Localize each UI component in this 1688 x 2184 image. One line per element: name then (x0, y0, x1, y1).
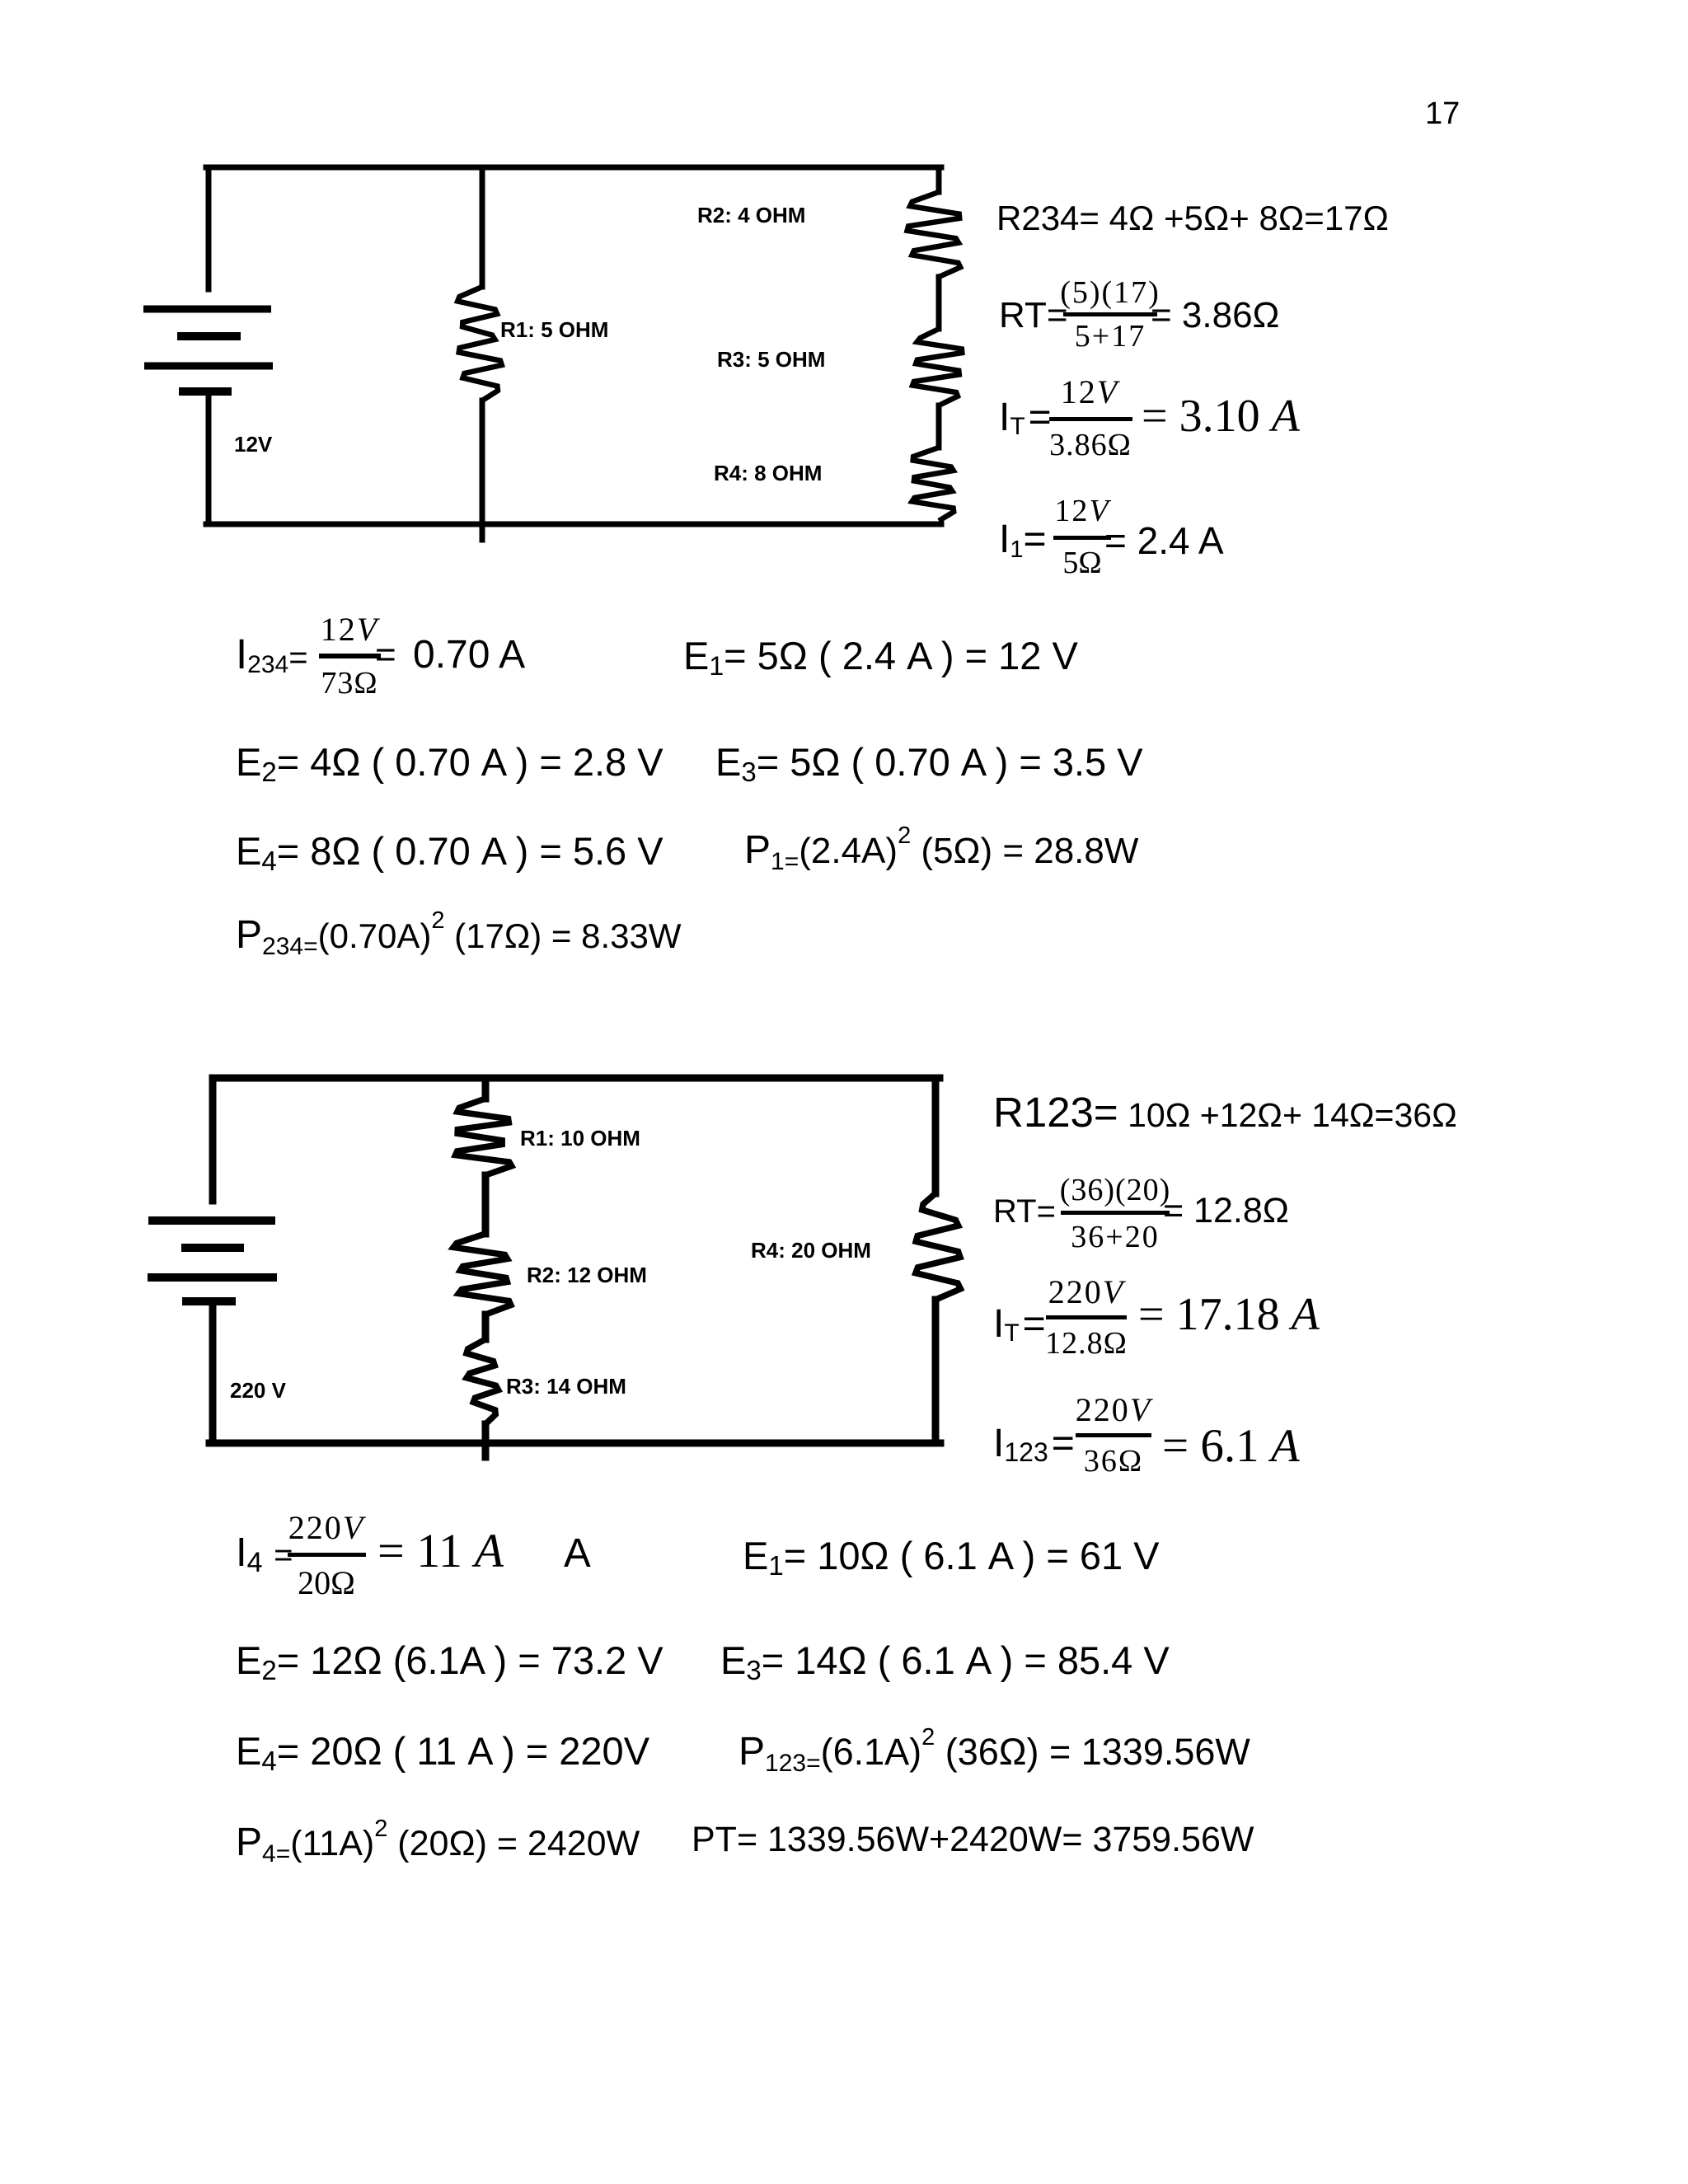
wire: left wire lower circuit 2 (209, 1303, 217, 1443)
eq E3 bottom (720, 1641, 1170, 1680)
eq IT2 lead (993, 1305, 1046, 1344)
label R4: 20 OHM (751, 1240, 871, 1261)
page number (1425, 98, 1460, 129)
battery B1 long plate 2 (144, 363, 273, 370)
wire: middle branch bottom lead circuit 2 (482, 1424, 490, 1457)
battery B1 long plate 1 (143, 306, 271, 313)
eq I234 equals (375, 637, 396, 673)
eq I4 fraction denominator (326, 1567, 384, 1600)
eq RT2 fraction bar (1061, 1211, 1170, 1215)
eq E3 (715, 743, 1143, 781)
label 220 V battery (230, 1380, 286, 1401)
wire: left wire upper circuit 2 (209, 1078, 217, 1201)
eq I123 lead (993, 1424, 1075, 1464)
eq IT2 fraction numerator (1086, 1276, 1162, 1309)
eq I4 lead (236, 1533, 293, 1573)
eq E1 bottom (743, 1536, 1160, 1575)
eq IT2 fraction bar (1046, 1315, 1127, 1319)
eq I1 result (1104, 522, 1224, 560)
eq RT2 lead (993, 1195, 1056, 1228)
label R4: 8 OHM (714, 462, 822, 484)
battery B2 (220V source) plates (148, 1221, 277, 1301)
wire: right branch lead top (to R2) (936, 167, 942, 192)
eq I1 fraction bar (1053, 536, 1111, 540)
eq RT result (1151, 298, 1279, 334)
eq RT lead (999, 298, 1068, 334)
eq E2 (236, 743, 663, 781)
eq I123 fraction denominator (1114, 1446, 1173, 1477)
eq I4 result (377, 1527, 504, 1575)
eq IT fraction bar (1049, 417, 1132, 421)
eq I234 fraction bar (319, 654, 381, 658)
wire: lead between R1 and R2 circuit 2 (482, 1175, 490, 1234)
eq R123 sum (993, 1091, 1457, 1133)
eq P4 (236, 1823, 640, 1863)
battery B1 short plate 1 (177, 332, 241, 340)
label R3: 5 OHM (717, 349, 825, 370)
eq RT fraction bar (1063, 312, 1157, 316)
wire: right branch top lead circuit 2 (932, 1078, 940, 1193)
eq I1 fraction denominator (1082, 547, 1121, 579)
wire: top wire circuit 1 (206, 165, 941, 171)
wire: R1 branch top lead (480, 167, 485, 287)
label R2: 12 OHM (527, 1264, 647, 1286)
wire: right branch bottom lead circuit 2 (932, 1300, 940, 1443)
wire: bottom wire circuit 1 (206, 522, 941, 527)
battery B2 short plate 1 (181, 1244, 244, 1252)
eq IT2 fraction denominator (1086, 1328, 1169, 1359)
eq P234 (236, 916, 681, 955)
wire: top wire circuit 2 (213, 1075, 940, 1082)
eq IT2 result (1138, 1291, 1320, 1338)
battery B2 long plate 1 (148, 1216, 275, 1225)
eq I234 fraction numerator (349, 613, 407, 646)
wire: lead between R2 and R3 (936, 277, 942, 329)
eq I1 fraction numerator (1082, 495, 1137, 527)
battery B2 short plate 2 (182, 1297, 236, 1305)
wire: lead between R2 and R3 circuit 2 (482, 1315, 490, 1339)
eq I234 lead (236, 633, 308, 675)
eq I123 result (1162, 1422, 1300, 1469)
wire: bottom wire circuit 2 (209, 1440, 940, 1447)
eq IT fraction numerator (1090, 376, 1147, 409)
battery B2 long plate 2 (148, 1273, 277, 1282)
eq I4 fraction numerator (326, 1511, 402, 1544)
eq I4 fraction bar (288, 1553, 366, 1557)
battery B1 (12V source) plates (143, 309, 273, 391)
eq RT2 fraction numerator (1115, 1174, 1226, 1206)
label R1: 5 OHM (500, 319, 608, 340)
eq IT result (1142, 393, 1300, 439)
wire: lead between R3 and R4 (936, 405, 942, 448)
eq E1 (683, 636, 1078, 675)
eq P1 (744, 831, 1138, 870)
label 12V battery (234, 434, 272, 455)
eq E4 bottom (236, 1732, 649, 1770)
resistor R3 (5 ohm) zigzag (912, 329, 962, 405)
eq stray A (564, 1534, 591, 1574)
eq RT fraction numerator (1110, 277, 1211, 308)
resistor R1 (10 ohm) zigzag circuit 2 (456, 1099, 512, 1175)
wire: middle branch top lead circuit 2 (482, 1078, 490, 1099)
eq IT fraction denominator (1090, 429, 1173, 461)
eq R234 sum (996, 201, 1389, 236)
resistor R4 (20 ohm) zigzag circuit 2 (916, 1193, 961, 1300)
wire: left wire upper (battery top lead) (206, 167, 212, 289)
resistor R2 (12 ohm) zigzag circuit 2 (453, 1234, 511, 1315)
eq I1 lead (999, 520, 1047, 560)
wire: left wire lower (battery bottom lead) (206, 393, 212, 524)
label R1: 10 OHM (520, 1127, 640, 1149)
eq I234 fraction denominator (349, 668, 406, 699)
eq RT fraction denominator (1110, 321, 1181, 352)
eq E2 bottom (236, 1641, 663, 1680)
label R2: 4 OHM (697, 204, 805, 226)
eq I123 fraction numerator (1114, 1394, 1189, 1427)
resistor R3 (14 ohm) zigzag circuit 2 (467, 1339, 499, 1424)
battery B1 short plate 2 (179, 387, 232, 396)
resistor R2 (4 ohm) zigzag (907, 192, 961, 277)
eq RT2 result (1163, 1193, 1289, 1229)
eq IT lead (999, 398, 1052, 438)
resistor R4 (8 ohm) zigzag (912, 448, 954, 521)
eq E4 (236, 832, 663, 870)
eq RT2 fraction denominator (1115, 1221, 1203, 1253)
eq PT (692, 1822, 1254, 1858)
resistor R1 (5 ohm) zigzag (457, 287, 502, 401)
eq P123 (738, 1732, 1250, 1772)
label R3: 14 OHM (506, 1376, 626, 1397)
eq I234 result (413, 635, 525, 675)
eq I123 fraction bar (1076, 1433, 1151, 1437)
wire: R1 branch bottom lead (480, 401, 485, 540)
